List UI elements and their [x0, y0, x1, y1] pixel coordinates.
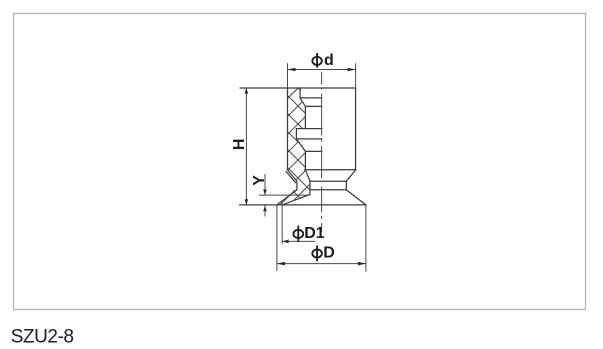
svg-text:H: H	[231, 139, 248, 151]
svg-text:Y: Y	[251, 175, 268, 186]
svg-text:D: D	[323, 244, 335, 261]
svg-text:SZU2-8: SZU2-8	[11, 326, 74, 347]
svg-text:D1: D1	[304, 225, 325, 242]
svg-text:d: d	[324, 52, 334, 69]
